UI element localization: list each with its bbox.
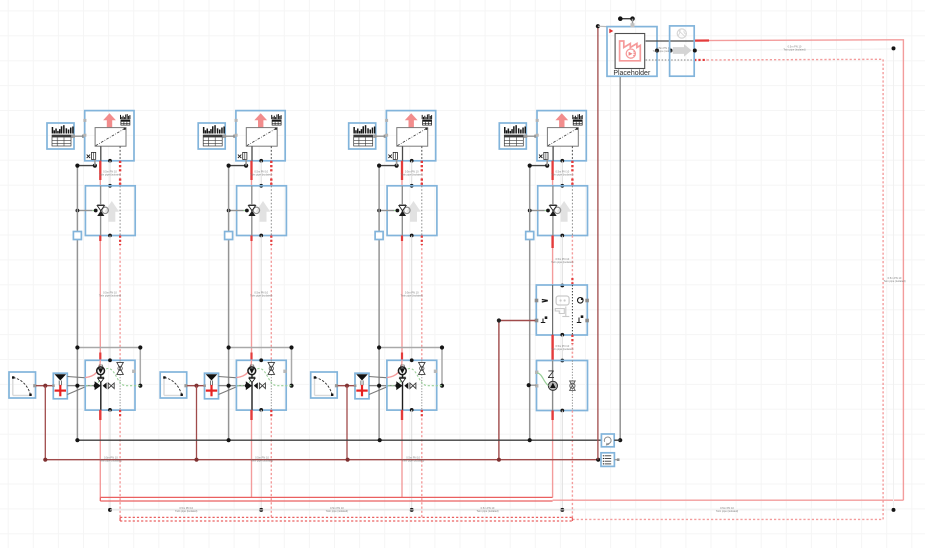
node: valve V3 bottom port — [410, 234, 414, 238]
node: rail junction at valve level — [227, 209, 231, 213]
maroon drop wire column 3 — [346, 386, 348, 460]
node: valve V4 bottom port — [560, 234, 564, 238]
node: rail top left — [75, 164, 79, 168]
wire schedule SCH4 output to heat-source block — [527, 135, 538, 138]
wire mixer M2 mid output to hydraulic — [219, 385, 247, 387]
wire left rail to valve V1 — [77, 210, 92, 212]
node: meter block bottom port — [560, 333, 564, 337]
green control wire into valve V2 — [244, 210, 246, 212]
maroon wire from placeholder down to setpoint bus — [597, 26, 599, 460]
left control rail wire column 2 — [228, 166, 230, 441]
pipe pair valve V2 to hydraulic block — [252, 236, 272, 361]
node: rail crossing at mixer level column 3 — [377, 384, 381, 388]
wire mixer M3 top output to hydraulic — [369, 377, 388, 378]
setpoint wire curve block to mixer column 3 — [338, 385, 355, 387]
node: loop left junction — [227, 345, 231, 349]
node: hydraulic HY1 bottom port — [108, 408, 112, 412]
svg-text:Twin pipe (isolated): Twin pipe (isolated) — [99, 172, 121, 176]
schedule data block SCH4 — [499, 123, 527, 149]
node: loop left junction — [75, 345, 79, 349]
distribution arrow block DA1 — [670, 26, 695, 76]
wire schedule SCH3 output to heat-source block — [376, 135, 387, 138]
node: loop bottom end at hydraulic right port — [138, 384, 142, 388]
wire left rail to valve V4 — [530, 210, 545, 212]
green control wire into valve V3 — [394, 210, 396, 212]
hydraulic pump/valve block HY2 — [236, 360, 291, 410]
node: valve V1 left port — [94, 209, 98, 213]
heating-curve block CB1 — [9, 372, 36, 398]
return pipe bus lower (red dashed) — [120, 520, 572, 522]
node: ambient bus bottom right corner — [892, 508, 896, 512]
wire rail top horizontal column 3 — [379, 165, 397, 167]
node: rail top left — [377, 164, 381, 168]
node: valve V2 left port — [245, 209, 249, 213]
supply pipe to plant (red solid) — [553, 499, 904, 501]
node: rail junction at valve level — [377, 209, 381, 213]
svg-text:Twin pipe (isolated): Twin pipe (isolated) — [883, 279, 905, 283]
label between placeholder and arrow block — [653, 46, 675, 53]
svg-text:Twin pipe (isolated): Twin pipe (isolated) — [401, 172, 423, 176]
corner stub dashed bus left — [119, 517, 121, 521]
pipe pair below hydraulic block column 3 — [402, 410, 422, 518]
svg-text:Twin pipe (isolated): Twin pipe (isolated) — [716, 509, 738, 513]
left control rail wire column 1 — [76, 166, 78, 441]
node: arrow block left port — [669, 49, 673, 53]
pipe pair (supply/return) HS3 to valve block — [402, 161, 422, 186]
tick at list block stub end — [617, 458, 620, 461]
node: ambient connection dot column 4 — [560, 508, 564, 512]
schedule data block SCH1 — [47, 123, 75, 149]
node: ambient connection dot column 2 — [259, 508, 263, 512]
node: hydraulic left port column 1 — [94, 384, 98, 388]
label on plant pipes right side — [883, 276, 905, 283]
node: control bus right end — [618, 438, 622, 442]
pipe label valve-hydraulic column 2 — [250, 290, 272, 297]
node: maroon junction column 1 — [43, 384, 47, 388]
node: loop bottom end at hydraulic right port — [289, 384, 293, 388]
ambient faint bus horizontal right part — [575, 509, 894, 511]
wire mixer M2 bottom output to hydraulic — [219, 387, 238, 395]
schedule data block SCH3 — [349, 123, 377, 149]
heat meter block HM4 — [535, 285, 589, 335]
node: control bus junction — [75, 438, 79, 442]
node: rail top left — [227, 164, 231, 168]
heating-curve block CB2 — [160, 372, 187, 398]
top connector of placeholder — [618, 16, 635, 27]
supply pipe bus upper (red solid) — [100, 496, 552, 498]
pipe pair below pump block column 4 — [553, 411, 573, 518]
svg-text:Twin pipe (isolated): Twin pipe (isolated) — [251, 459, 273, 463]
node: valve V1 bottom port — [108, 234, 112, 238]
label on ambient bus — [716, 506, 738, 513]
label on ambient bus — [326, 506, 348, 513]
maroon drop wire column 2 — [196, 386, 198, 460]
node: hydraulic HY2 top port — [259, 358, 263, 362]
return pipe bus upper (red dashed) — [120, 516, 572, 518]
stub from xn to rail column 1 — [94, 159, 96, 165]
node: control bus junction — [227, 438, 231, 442]
svg-text:Z: Z — [548, 369, 555, 381]
label on ambient bus — [476, 506, 498, 513]
stub from xn to rail column 4 — [546, 159, 548, 165]
node: maroon junction column 3 — [345, 384, 349, 388]
svg-text:Twin pipe (isolated): Twin pipe (isolated) — [783, 48, 805, 52]
node: HS3 bottom port — [410, 159, 414, 163]
svg-text:Twin pipe (isolated): Twin pipe (isolated) — [100, 459, 122, 463]
wire maroon node to placeholder block — [598, 25, 607, 27]
stub from xn to rail column 3 — [396, 159, 398, 165]
green sensor wire into hydraulic block column 2 — [237, 385, 247, 387]
blue connector square on rail column 1 — [73, 232, 81, 240]
bypass loop wire column 2 — [229, 348, 292, 386]
label on maroon bus — [100, 456, 122, 463]
plant supply pipe top (red solid) — [694, 40, 903, 500]
node: pump block top port — [560, 359, 564, 363]
node: rail junction pump level — [527, 383, 531, 387]
corner stub dashed bus right — [571, 517, 573, 521]
green control wire into valve V4 — [545, 210, 547, 212]
gray wire placeholder bottom to control bus — [619, 76, 621, 440]
substation valve block V1 — [85, 186, 135, 236]
node: maroon bus junction — [194, 458, 198, 462]
node: HS4 bottom port — [560, 159, 564, 163]
node: maroon corner column 4 — [497, 318, 501, 322]
maroon wire from bus up into meter block left port — [499, 321, 535, 460]
wire left rail to valve V2 — [229, 210, 244, 212]
heating-curve block CB3 — [311, 372, 338, 398]
node: rail top right under xn — [244, 164, 248, 168]
wire mixer M1 mid output to hydraulic — [67, 385, 95, 387]
node: rail top left — [528, 164, 532, 168]
placeholder plant block PH1 — [607, 27, 657, 77]
ambient faint bus vertical right — [893, 49, 895, 510]
label on ambient bus top — [783, 45, 805, 52]
heat source block HS3 (arrow + efficiency box + xn) — [385, 111, 436, 161]
mixer/controller block M1 — [52, 373, 67, 399]
wire schedule SCH1 output to heat-source block — [75, 135, 86, 138]
node: meter block top port — [560, 284, 564, 288]
node: maroon junction column 2 — [194, 384, 198, 388]
wire rail top horizontal column 4 — [530, 165, 548, 167]
svg-text:Twin pipe (isolated): Twin pipe (isolated) — [551, 347, 573, 351]
pipe label valve-hydraulic column 1 — [99, 290, 121, 297]
node: loop top right corner — [289, 345, 293, 349]
left control rail wire column 4 — [529, 166, 531, 441]
node: loop top right corner — [440, 345, 444, 349]
node: rail top right under xn — [545, 164, 549, 168]
node: valve block V2 top port — [259, 184, 263, 188]
pump block PU4 — [535, 361, 588, 411]
plant return pipe top (red dashed) — [694, 59, 883, 519]
pipe label meter-pump column 4 — [551, 344, 573, 351]
svg-text:Twin pipe (isolated): Twin pipe (isolated) — [99, 293, 121, 297]
pipe pair below hydraulic block column 1 — [100, 410, 120, 518]
pipe label valve-meter column 4 — [551, 257, 573, 264]
node: pump block bottom port — [560, 409, 564, 413]
node: ambient connection dot column 3 — [410, 508, 414, 512]
bypass loop wire column 1 — [77, 348, 140, 386]
wire mixer M3 bottom output to hydraulic — [369, 387, 388, 395]
label on maroon bus — [402, 456, 424, 463]
wire rail top horizontal column 1 — [77, 165, 95, 167]
wire rotate block to gray rail — [614, 439, 620, 441]
pipe pair meter to pump block column 4 — [553, 335, 573, 361]
bright segment of plant return at arrow block — [694, 59, 707, 61]
wire left rail to valve V3 — [379, 210, 394, 212]
heat source block HS2 (arrow + efficiency box + xn) — [235, 111, 286, 161]
node: maroon bus junction — [497, 458, 501, 462]
setpoint bus (maroon) — [45, 459, 599, 461]
green sensor wire into hydraulic block column 1 — [86, 385, 96, 387]
setpoint wire curve block to mixer column 1 — [36, 385, 53, 387]
label on maroon bus — [251, 456, 273, 463]
node: hydraulic HY1 top port — [108, 358, 112, 362]
node: arrow block right port — [693, 49, 697, 53]
bypass loop wire column 3 — [379, 348, 442, 386]
node: HS1 bottom port — [108, 159, 112, 163]
ambient faint bus top horizontal — [695, 49, 894, 51]
pipe label HS2-valve — [250, 169, 272, 176]
small rotate block RB1 — [601, 434, 614, 447]
pipe pair (supply/return) HS1 to valve block — [100, 161, 120, 186]
node: valve block V3 top port — [410, 184, 414, 188]
node: HS2 bottom port — [259, 159, 263, 163]
node: hydraulic HY2 bottom port — [259, 408, 263, 412]
node: valve V3 left port — [396, 209, 400, 213]
svg-text:Twin pipe (isolated): Twin pipe (isolated) — [653, 49, 675, 53]
green sensor wire into hydraulic block column 3 — [388, 385, 398, 387]
node: valve block V1 top port — [108, 184, 112, 188]
node: maroon bus junction — [346, 458, 350, 462]
mixer/controller block M2 — [203, 373, 218, 399]
svg-text:Twin pipe (isolated): Twin pipe (isolated) — [476, 509, 498, 513]
node: valve block V4 top port — [560, 184, 564, 188]
pipe label HS1-valve — [99, 169, 121, 176]
maroon drop wire column 1 — [44, 386, 46, 460]
supply pipe bus lower (red solid) — [100, 500, 552, 502]
corner stub solid bus left — [99, 497, 101, 501]
node: placeholder right port — [655, 49, 659, 53]
pipe pair valve V3 to hydraulic block — [402, 236, 422, 361]
node: hydraulic left port column 2 — [245, 384, 249, 388]
node: maroon bus right end — [596, 458, 600, 462]
bright segment of plant supply at arrow block — [694, 39, 709, 41]
wire mixer M3 mid output to hydraulic — [369, 385, 397, 387]
substation valve block V3 — [387, 186, 437, 236]
setpoint wire curve block to mixer column 2 — [187, 385, 204, 387]
pipe pair valve V1 to hydraulic block — [100, 236, 120, 361]
node: hydraulic HY3 bottom port — [410, 408, 414, 412]
pipe pair (supply/return) HS4 to valve block — [553, 161, 573, 186]
wire placeholder to distribution arrow block (dashed) — [646, 59, 695, 61]
node: hydraulic left port column 3 — [395, 384, 399, 388]
svg-text:Twin pipe (isolated): Twin pipe (isolated) — [250, 172, 272, 176]
pipe label HS3-valve — [401, 169, 423, 176]
pipe label HS4-valve — [551, 169, 573, 176]
heat source block HS4 (arrow + efficiency box + xn) — [536, 111, 587, 161]
svg-text:Twin pipe (isolated): Twin pipe (isolated) — [175, 509, 197, 513]
svg-text:Twin pipe (isolated): Twin pipe (isolated) — [551, 172, 573, 176]
node: rail crossing at mixer level column 2 — [227, 384, 231, 388]
node: maroon bus junction — [43, 458, 47, 462]
node: valve V4 left port — [546, 209, 550, 213]
node: loop top right corner — [138, 345, 142, 349]
wire rail to pump block column 4 — [530, 384, 537, 386]
svg-text:Placeholder: Placeholder — [613, 70, 651, 77]
node: placeholder maroon corner — [596, 24, 600, 28]
svg-text:Twin pipe (isolated): Twin pipe (isolated) — [401, 293, 423, 297]
wire placeholder to distribution arrow block (solid) — [646, 40, 695, 42]
substation valve block V2 — [237, 186, 287, 236]
svg-text:Twin pipe (isolated): Twin pipe (isolated) — [551, 260, 573, 264]
node: control bus junction — [378, 438, 382, 442]
node: rail junction at valve level — [76, 209, 80, 213]
heat source block HS1 (arrow + efficiency box + xn) — [83, 111, 134, 161]
node: rail crossing at mixer level column 1 — [75, 384, 79, 388]
green wire into pump block — [537, 373, 548, 386]
node: rail top right under xn — [395, 164, 399, 168]
small list block LB1 — [601, 453, 614, 467]
node: ambient connection dot column 1 — [108, 508, 112, 512]
node: hydraulic HY3 top port — [410, 358, 414, 362]
control signal bus (dark) — [77, 439, 601, 441]
schedule data block SCH2 — [198, 123, 226, 149]
label on ambient bus — [175, 506, 197, 513]
return pipe to plant (red dashed) — [572, 518, 883, 520]
ambient faint bus horizontal — [110, 509, 575, 511]
blue connector square on rail column 2 — [225, 232, 233, 240]
node: loop left junction — [377, 345, 381, 349]
pipe pair below hydraulic block column 2 — [252, 410, 272, 518]
node: control bus junction — [528, 438, 532, 442]
hydraulic pump/valve block HY1 — [85, 360, 140, 410]
svg-text:Twin pipe (isolated): Twin pipe (isolated) — [250, 293, 272, 297]
substation valve block V4 — [538, 186, 588, 236]
wire rail top horizontal column 2 — [229, 165, 247, 167]
green control wire into valve V1 — [92, 210, 94, 212]
wire list block right stub — [614, 459, 618, 461]
stub from xn to rail column 2 — [245, 159, 247, 165]
wire mixer M2 top output to hydraulic — [219, 377, 238, 378]
blue connector square on rail column 3 — [375, 232, 383, 240]
mixer/controller block M3 — [354, 373, 369, 399]
node: rail junction at valve level — [528, 209, 532, 213]
pipe pair valve V4 to meter block — [553, 236, 573, 286]
wire mixer M1 bottom output to hydraulic — [67, 387, 86, 395]
wire mixer M1 top output to hydraulic — [67, 377, 86, 378]
pipe pair (supply/return) HS2 to valve block — [252, 161, 272, 186]
hydraulic pump/valve block HY3 — [387, 360, 442, 410]
node: ambient bus top right corner — [892, 46, 896, 50]
svg-text:Twin pipe (isolated): Twin pipe (isolated) — [326, 509, 348, 513]
blue connector square on rail column 4 — [526, 232, 534, 240]
wire schedule SCH2 output to heat-source block — [226, 135, 237, 138]
node: loop bottom end at hydraulic right port — [440, 384, 444, 388]
left control rail wire column 3 — [378, 166, 380, 441]
node: valve V2 bottom port — [259, 234, 263, 238]
svg-text:Twin pipe (isolated): Twin pipe (isolated) — [402, 459, 424, 463]
pipe label valve-hydraulic column 3 — [401, 290, 423, 297]
node: rail top right under xn — [93, 164, 97, 168]
